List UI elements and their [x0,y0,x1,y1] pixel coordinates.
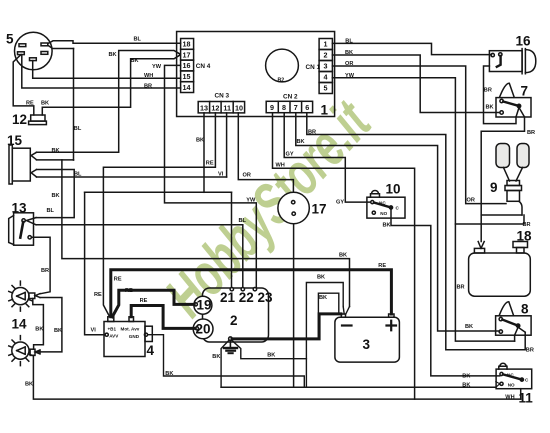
fuel tank 18 body [469,253,531,296]
wire BR switch to pin 14 [22,55,181,88]
starter contact 20 circle [193,319,213,339]
CN4 pin 15 [181,71,194,82]
wire mid-left pin diagonal to comp12 RE [13,55,34,115]
svg-text:BK: BK [131,58,139,64]
brake switch 8 body [496,316,531,335]
svg-text:BR: BR [457,285,465,291]
CN1 pin 4 [319,72,332,83]
svg-text:13: 13 [12,201,28,216]
microswitch 11 button [499,363,507,369]
wire thick RE battery plus to +B1 [111,270,392,317]
svg-text:OR: OR [345,61,353,67]
svg-text:CN 2: CN 2 [283,94,298,101]
CN4 pin 18 [181,39,194,50]
svg-text:BK: BK [54,328,62,334]
svg-text:BR: BR [484,87,492,93]
CN4 pin 16 [181,60,194,71]
engine ground terminal [229,337,233,341]
svg-text:BK: BK [465,324,473,330]
lamp 14b connector [30,349,35,355]
wire lamp1 connector bottom jog to lamp2 top [33,299,44,350]
svg-text:NO: NO [508,382,515,387]
battery minus sign [342,324,352,326]
svg-text:BK: BK [165,371,173,377]
svg-text:11: 11 [223,103,231,112]
svg-text:RE: RE [26,100,34,106]
svg-text:BK: BK [339,252,347,258]
svg-text:OR: OR [243,173,251,179]
fuel tank 18 left cap [474,248,484,253]
seat switch 7 contacts [500,99,503,102]
brake switch 8 lever [502,320,518,326]
svg-text:BL: BL [345,39,353,45]
svg-text:18: 18 [183,40,191,49]
svg-text:7: 7 [294,103,298,112]
svg-text:17: 17 [312,202,327,217]
connector 15 arrow2 wedge [31,170,36,177]
flywheel 17 body [278,192,309,223]
svg-text:VI: VI [91,328,97,334]
lamp 14b rays [9,336,32,366]
svg-text:CN 1: CN 1 [306,64,321,71]
svg-text:8: 8 [521,302,529,317]
CN1 pin 5 [319,83,332,94]
svg-text:RE: RE [206,161,214,167]
svg-text:BK: BK [345,50,353,56]
wire comp15 arrow1-lower junction line [37,159,74,161]
svg-text:BK: BK [462,374,470,380]
svg-text:NC: NC [379,200,386,205]
battery plus sign [387,321,397,331]
starter relay 4 AVV contact [105,333,108,336]
svg-text:CN 3: CN 3 [215,93,230,100]
svg-text:1: 1 [321,103,329,118]
svg-text:2: 2 [324,51,328,60]
lamp 14a wedge [35,294,40,298]
svg-text:AVV: AVV [109,333,119,338]
clutch 16 body [489,51,522,72]
buzzer 12 body [31,115,45,121]
battery 3 plus tab [389,314,394,317]
B2 circle [266,49,299,82]
svg-text:YW: YW [246,197,256,203]
wire BK pin2 to switch 7 lower-left [332,55,499,113]
svg-text:BK: BK [267,353,275,359]
seat switch 7 V legs [516,108,525,118]
clutch 16 left terminal lead [490,54,493,56]
lamp 14a connector [29,293,35,299]
svg-text:4: 4 [147,343,155,358]
wire thick RE +B1 to contact 19 [112,290,194,317]
starter contact 19 circle [194,296,212,314]
engine terminal 22 [241,288,244,291]
wire thick BK engine ground to battery minus [232,314,341,339]
svg-text:BR: BR [526,348,534,354]
svg-text:RE: RE [94,292,102,298]
svg-text:BL: BL [74,126,82,132]
CN2 row [266,101,312,112]
svg-text:+B1: +B1 [108,327,117,332]
CN1 pin 3 [319,61,332,72]
wire YW pin16 to engine terminal 23 [165,65,257,287]
ground bus y=387.3 to microswitch 11 NO [221,386,496,388]
switch 13 wedge at upper contact [26,218,36,225]
seat switch 7 body [496,98,531,117]
microswitch 10 contacts [371,201,374,204]
wire BL comp13 to terminal 22 of engine [36,225,243,288]
wire BR switch7 to tank junction [481,117,524,242]
svg-text:BL: BL [74,171,82,177]
svg-text:1: 1 [324,40,328,49]
svg-text:BK: BK [25,381,33,387]
wire comp11 C riser [520,389,522,399]
wire OR pin3 to spark plug 9 [332,66,506,204]
starter relay 4 +B1 tab [108,317,114,322]
wire OR pin10 to flywheel 17 top [238,113,293,193]
wire lamp1 lower to lamp2 wedge [38,298,62,352]
svg-text:20: 20 [196,322,211,337]
svg-text:BK: BK [319,295,327,301]
wire GY pin8 to microswitch 10 NC [284,113,370,202]
bridge A [306,283,343,388]
CN3 row [198,102,244,113]
switch 13 body [14,213,34,245]
svg-text:16: 16 [516,34,532,49]
spark plug 9 boot diagonals [504,168,523,182]
wire to engine terminal 21 [231,192,233,287]
battery 3 minus tab [341,314,345,317]
svg-text:RE: RE [378,263,386,269]
svg-text:21 22 23: 21 22 23 [220,290,273,305]
CN1 pin 1 [319,39,332,50]
connector 15 arrow1 wedge [31,152,36,159]
starter relay GND wire to ground bus [148,335,305,388]
microswitch 10 button [371,191,380,198]
svg-text:YW: YW [152,64,162,70]
wire VI pin11 descent [226,113,228,177]
starter relay 4 MotAvv tab [129,317,134,322]
svg-text:BR: BR [41,268,49,274]
svg-text:BR: BR [523,222,531,228]
lamp 14a bulb [12,288,29,305]
key switch 5 pin top-right [41,43,48,46]
svg-text:RE: RE [114,276,122,282]
svg-text:BL: BL [239,218,247,224]
wire VI/BL comp15 arrow2-lower to pin 11 riser [37,176,227,178]
wire junction x=61.9 down to long horizontal y=258.6 [62,160,350,307]
lamp 14b filament [17,347,26,354]
watermark HobbyStore.it [153,87,385,329]
engine 2 body [203,288,269,342]
wire YW branch to tank junction [455,215,524,224]
svg-text:9: 9 [490,180,498,195]
spark plug 9 capsule left [496,144,510,168]
svg-text:GY: GY [286,152,294,158]
wire YW pin4 descent [332,78,514,341]
wire WH switch bottom pin to pin 15 [33,61,181,79]
svg-text:BR: BR [144,84,152,90]
wire BK pin7 to switch 8 lower-left [296,113,500,331]
svg-text:3: 3 [363,337,371,352]
svg-text:2: 2 [230,313,238,328]
svg-text:Mot. Avv: Mot. Avv [121,327,140,332]
wire lamp2 bottom to bottom bus [33,355,520,399]
microswitch 11 NO wedge [496,382,500,388]
connector 15 bar [9,145,12,184]
svg-text:17: 17 [183,50,191,59]
svg-text:B2: B2 [278,78,285,84]
wire BK pin13 descent [203,113,205,192]
microswitch 11 body [496,369,532,389]
svg-text:CN 4: CN 4 [196,63,211,70]
wire thick RE Mot.Avv to contact 20 [131,306,195,329]
spark plug 9 body stack [507,181,520,186]
wire BK horizontal y=192.3 [85,191,232,193]
svg-text:GY: GY [336,200,344,206]
svg-text:BK: BK [52,193,60,199]
wire BR comp13 lower contact to lamp1 [32,237,51,293]
control unit 1 body [177,32,335,117]
svg-text:BK: BK [462,383,470,389]
key switch 5 pin top-left [19,44,26,47]
key switch 5 body [15,32,53,70]
svg-text:WH: WH [144,73,153,79]
lamp 14b wedge [35,350,40,354]
svg-text:BK: BK [109,52,117,58]
microswitch 10 body [367,197,405,218]
clutch 16 flanges [522,49,525,74]
svg-text:7: 7 [521,84,529,99]
tank feed arrow [478,242,484,249]
svg-text:14: 14 [12,317,28,332]
brake switch 8 dome [499,302,513,316]
lamp 14b bulb [12,342,29,359]
wire BK comp15 arrow1-upper to pin 17 [37,51,181,153]
switch 13 back plate [9,216,14,245]
brake switch 8 contacts [499,317,502,320]
key switch 5 pin bottom-center [30,58,37,61]
svg-text:BK: BK [41,100,49,106]
svg-text:BK: BK [35,326,43,332]
svg-text:VI: VI [218,172,224,178]
starter relay 4 side box [145,326,152,341]
key switch 5 pin mid-right [41,52,48,55]
svg-text:4: 4 [324,73,328,82]
svg-text:14: 14 [183,83,191,92]
svg-text:10: 10 [235,103,243,112]
svg-text:WH: WH [505,394,514,400]
wire BR clutch16 down to switch 7 [484,66,517,124]
svg-text:RE: RE [140,298,148,304]
svg-text:OR: OR [467,197,475,203]
wire BL switch to pin 18 with wedge [48,41,181,44]
wire BL pin1 to clutch 16 [332,43,490,54]
spark plug 9 bottom wire [519,201,522,215]
svg-text:BR: BR [527,130,535,136]
svg-text:BK: BK [486,105,494,111]
svg-text:19: 19 [197,298,212,313]
svg-text:GND: GND [129,334,140,339]
engine terminal 21 [230,288,233,291]
switch 13 contacts [22,219,25,222]
microswitch 11 lever [503,374,522,379]
wire comp15 arrow2-upper to comp13 [36,170,74,218]
wire BK switch lower wedge leg [48,45,74,48]
CN1 pin 2 [319,50,332,61]
svg-text:BR: BR [308,130,316,136]
connector 15 body [12,148,30,181]
svg-text:5: 5 [324,84,328,93]
clutch 16 lever [497,56,501,67]
svg-text:RE: RE [125,288,133,294]
clutch 16 dome [525,50,535,73]
svg-text:BK: BK [297,139,305,145]
svg-text:15: 15 [183,72,191,81]
svg-text:BK: BK [317,275,325,281]
svg-text:6: 6 [305,103,309,112]
brake switch 8 V legs [515,327,526,341]
lamp 14a filament [17,292,26,299]
spark plug 9 capsule right [517,144,529,168]
svg-text:BL: BL [47,208,55,214]
wire switch descent x=73.5 [73,49,75,161]
svg-text:WH: WH [276,162,285,168]
svg-text:15: 15 [7,133,23,148]
engine ground symbol [229,341,231,348]
starter relay 4 body [104,322,145,357]
svg-text:16: 16 [183,61,191,70]
battery 3 body [335,317,400,362]
svg-text:BK: BK [383,223,391,229]
wire VI branch down to starter relay AVV [85,192,105,334]
wire flywheel 17 bottom long descent [293,224,295,388]
svg-text:11: 11 [519,391,534,406]
seat switch 7 dome [500,83,515,97]
junction horizontals near plug [481,214,522,216]
key switch 5 pin mid-left [18,52,25,55]
wire BR pin6 to switch 8 right [307,113,525,350]
svg-text:YW: YW [345,73,355,79]
CN4 pin 17 [181,49,194,60]
svg-text:NO: NO [380,211,387,216]
CN4 pin 14 [181,82,194,93]
microswitch 11 contacts [500,372,503,375]
wire BK microswitch10 C to microswitch 11 NC [391,209,500,376]
wire BK engine ground left diagonal to ground bus [221,340,229,387]
seat switch 7 lever [503,102,519,107]
svg-text:BK: BK [212,354,220,360]
wire BK engine ground right diagonal [232,340,307,358]
switch 13 lever [20,222,23,238]
svg-text:13: 13 [200,103,208,112]
svg-text:5: 5 [6,32,14,47]
fuel tank 18 right cap [513,242,528,248]
wire RE pin12 to +B1 [103,113,215,317]
starter relay 4 GND contact [144,333,147,336]
svg-text:10: 10 [386,182,401,197]
svg-text:BL: BL [134,37,142,43]
svg-text:12: 12 [12,112,27,127]
clutch 16 contacts [491,53,494,56]
wedge into pin 17 [174,51,180,59]
svg-text:8: 8 [282,103,286,112]
wire WH pin9 descent to bottom bus [273,113,415,399]
svg-text:NC: NC [507,372,514,377]
svg-text:12: 12 [211,103,219,112]
svg-text:BK: BK [52,148,60,154]
engine terminal 23 [253,288,256,291]
wire BK comp12 to pin17 riser [42,55,180,115]
bridge B [318,293,338,339]
lamp 14a rays [9,281,32,311]
svg-text:9: 9 [270,103,274,112]
svg-text:BK: BK [196,138,204,144]
svg-text:18: 18 [517,229,533,244]
svg-text:3: 3 [324,62,328,71]
battery minus V arrow [343,307,349,315]
microswitch 10 lever [374,203,391,208]
